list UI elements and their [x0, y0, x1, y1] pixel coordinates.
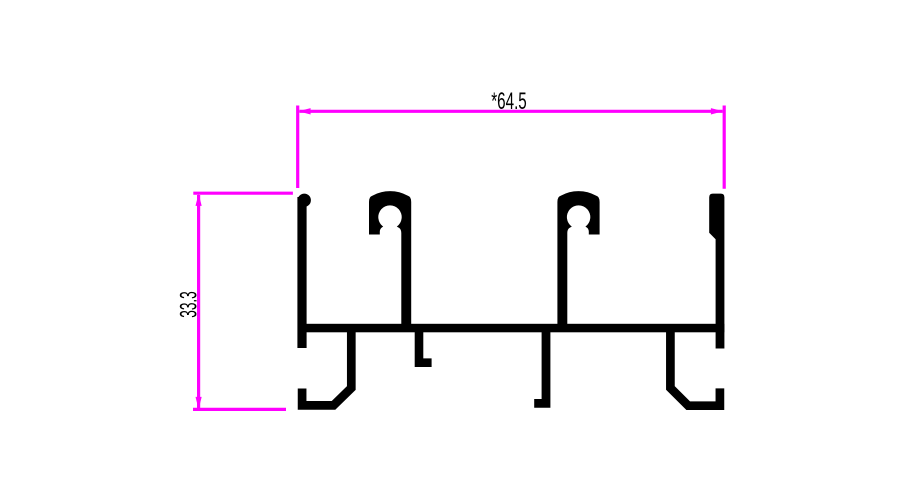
profile left wall [297, 197, 306, 348]
svg-text:*64.5: *64.5 [491, 88, 527, 115]
profile bottom web [298, 324, 725, 333]
profile L-leg below hook 1 [419, 330, 432, 363]
left dimension line 33.3 [197, 195, 200, 408]
profile left wall top ball [298, 194, 311, 207]
profile right wall [709, 194, 724, 349]
profile bottom-left channel [302, 330, 351, 405]
top dimension extension line left [296, 106, 299, 189]
top dimension arrowhead left [298, 108, 310, 114]
top dimension arrowhead right [711, 108, 723, 114]
profile hook rail 2 (mirrored) [557, 191, 599, 332]
profile bottom-right channel [670, 330, 720, 406]
left dimension arrowhead down [196, 397, 202, 409]
left dimension extension line top [193, 192, 293, 195]
profile middle leg [534, 330, 546, 403]
profile hook rail 1 [369, 191, 411, 332]
top dimension extension line right [723, 106, 726, 189]
svg-text:33.3: 33.3 [176, 291, 203, 318]
top dimension line *64.5 [300, 110, 723, 113]
left dimension arrowhead up [196, 194, 202, 206]
left dimension extension line bottom [193, 408, 286, 411]
